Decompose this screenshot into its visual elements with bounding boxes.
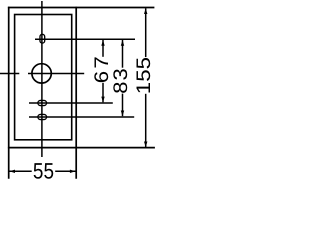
dimension line 83 shaft upper segment xyxy=(122,40,124,68)
dimension 55 left arrowhead xyxy=(9,170,15,173)
svg-text:155: 155 xyxy=(133,57,155,94)
dimension 83 bottom arrowhead xyxy=(121,111,124,117)
dimension line 55 shaft left segment xyxy=(9,170,31,172)
svg-text:83: 83 xyxy=(110,67,132,94)
dimension 67 top arrowhead xyxy=(101,40,104,46)
upper mounting slot leader line xyxy=(29,102,113,104)
upper horizontal mounting slot xyxy=(38,100,47,105)
dimension line 67 shaft lower segment xyxy=(102,83,104,103)
dimension 155 bottom arrowhead xyxy=(144,142,147,148)
plate outer outline bottom edge extended right as 155-dim leader xyxy=(8,147,155,149)
dimension 83 top arrowhead xyxy=(121,40,124,46)
plate outer outline left edge (continues down as 55-dim extension line) xyxy=(8,7,10,179)
plate inner recess rectangle xyxy=(15,15,72,140)
svg-text:55: 55 xyxy=(33,159,54,184)
vertical centerline xyxy=(41,1,43,157)
dimension line 67 shaft upper segment xyxy=(102,40,104,57)
lower mounting slot leader line xyxy=(29,116,134,118)
horizontal centerline of circle, main segment xyxy=(28,73,84,75)
top vertical slot xyxy=(40,34,45,43)
dimension line 155 shaft upper segment xyxy=(145,8,147,57)
lower horizontal mounting slot xyxy=(38,114,47,119)
dimension 155 top arrowhead xyxy=(144,8,147,14)
dimension line 55 shaft right segment xyxy=(55,170,75,172)
top slot leader line (67/83 dim origin) xyxy=(35,38,135,40)
plate outer outline right edge (continues down as 55-dim extension line) xyxy=(75,7,77,179)
dimension line 155 shaft lower segment xyxy=(145,94,147,147)
center circle knockout xyxy=(32,64,51,83)
dimension 55 right arrowhead xyxy=(70,170,76,173)
horizontal centerline of circle, left segment xyxy=(0,73,19,75)
plate outer outline top edge extended right as 155-dim leader xyxy=(8,7,155,9)
dimension 67 bottom arrowhead xyxy=(101,97,104,103)
dimension line 83 shaft lower segment xyxy=(122,94,124,117)
